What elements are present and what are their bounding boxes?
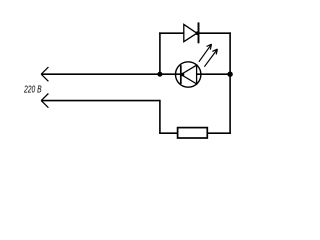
wire right drop (node B down to resistor branch) xyxy=(229,74,231,134)
LED HL1 circle xyxy=(176,62,201,87)
LED HL1 light arrow 1 xyxy=(199,44,212,62)
wire LED anode to node B xyxy=(197,73,231,75)
wire left riser (node A up to top branch) xyxy=(159,32,161,74)
LED HL1 cathode bar xyxy=(180,65,182,84)
wire lower-left drop (corner down) xyxy=(159,100,161,133)
wire upper mains lead (left terminal to node A) xyxy=(41,73,181,75)
wire to resistor left lead xyxy=(159,132,177,134)
terminal arrow lower (open arrowhead) xyxy=(41,94,48,108)
label 220 В xyxy=(23,85,41,96)
node B junction dot xyxy=(227,72,232,77)
diode VD1 (protection diode, top branch) xyxy=(184,22,199,43)
resistor R1 xyxy=(178,128,208,138)
LED HL1 triangle xyxy=(181,65,197,84)
wire right riser (top branch down to node B) xyxy=(229,32,231,74)
LED HL1 light arrow 2 xyxy=(204,49,217,67)
wire lower mains lead (left terminal to corner) xyxy=(41,100,160,102)
wire top branch left segment xyxy=(159,32,184,34)
wire resistor right lead xyxy=(208,132,231,134)
node A junction dot xyxy=(157,72,162,77)
svg-text:220 В: 220 В xyxy=(23,85,41,96)
terminal arrow upper (open arrowhead) xyxy=(41,67,48,81)
wire top branch right segment xyxy=(199,32,231,34)
